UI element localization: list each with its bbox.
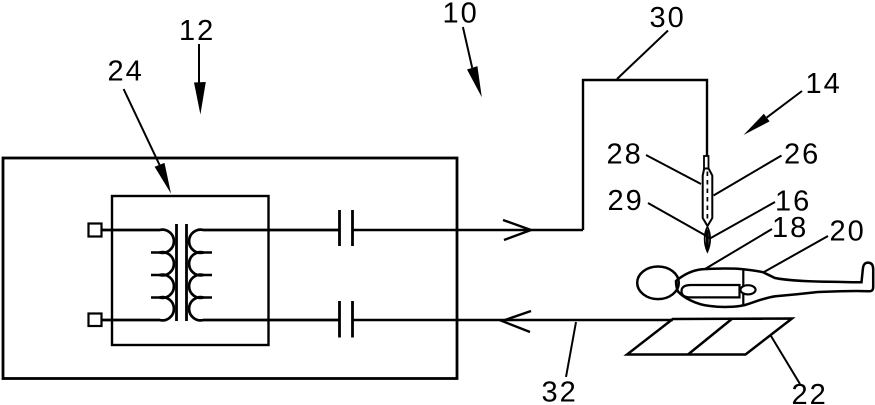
transformer T1 primary winding [102, 230, 174, 321]
needle tip 29 [705, 227, 710, 252]
label 24 arrow [124, 89, 160, 165]
label 32 [543, 381, 575, 402]
label 16 leader [709, 202, 775, 239]
label 24 [109, 60, 141, 80]
transformer T1 core lines [177, 224, 187, 321]
label 14 [808, 73, 839, 93]
label 18 [774, 217, 805, 238]
arrowhead chevron on return wire [502, 311, 531, 332]
label 29 leader [648, 203, 710, 238]
label 12 arrow [198, 44, 200, 83]
arrowhead chevron on active wire [503, 220, 531, 240]
label 18 leader [705, 229, 772, 269]
patient arm 18 [682, 285, 740, 297]
wire: active output from C1 to riser [353, 229, 584, 231]
patient head [637, 267, 679, 300]
label 10 arrow [463, 27, 472, 68]
label 26 leader [714, 156, 782, 196]
label 16 [777, 190, 808, 211]
patient gown divider line [742, 269, 744, 306]
oscillator enclosure box 12 [3, 158, 457, 379]
electrode handpiece 26 body [703, 169, 713, 227]
label 29 [609, 190, 640, 211]
label 20 [831, 220, 863, 241]
transformer inner box [112, 196, 269, 345]
label 30 leader [617, 31, 668, 80]
patient body outline [676, 263, 873, 307]
wire 30: riser up, across, down to electrode [583, 80, 707, 230]
transformer T1 primary cusp ticks [151, 253, 161, 298]
label 20 leader [764, 236, 828, 272]
pad 22 divider line [688, 319, 732, 355]
label 26 [785, 143, 817, 164]
label 14 arrow [767, 91, 802, 118]
label 28 [608, 143, 640, 164]
label 12 [181, 20, 212, 40]
transformer T1 secondary cusp ticks [202, 253, 212, 298]
needle tip 29 center line [706, 230, 709, 249]
wire: return from C2 to pad [353, 319, 673, 321]
label 22 [793, 384, 824, 404]
patient hand [740, 285, 755, 294]
label 22 leader [771, 336, 800, 384]
electrode handpiece 26 neck [704, 156, 709, 169]
terminal square top [89, 224, 102, 237]
transformer T1 secondary winding [189, 230, 339, 321]
label 32 leader [566, 322, 576, 377]
label 10 [445, 2, 476, 23]
capacitor C1 plates [340, 210, 353, 246]
capacitor C2 plates [340, 301, 353, 338]
return electrode pad 22 [627, 319, 792, 355]
electrode 28 internal dashed line [706, 172, 708, 222]
terminal square bottom [89, 314, 102, 327]
label 30 [651, 7, 683, 28]
label 28 leader [646, 155, 701, 184]
